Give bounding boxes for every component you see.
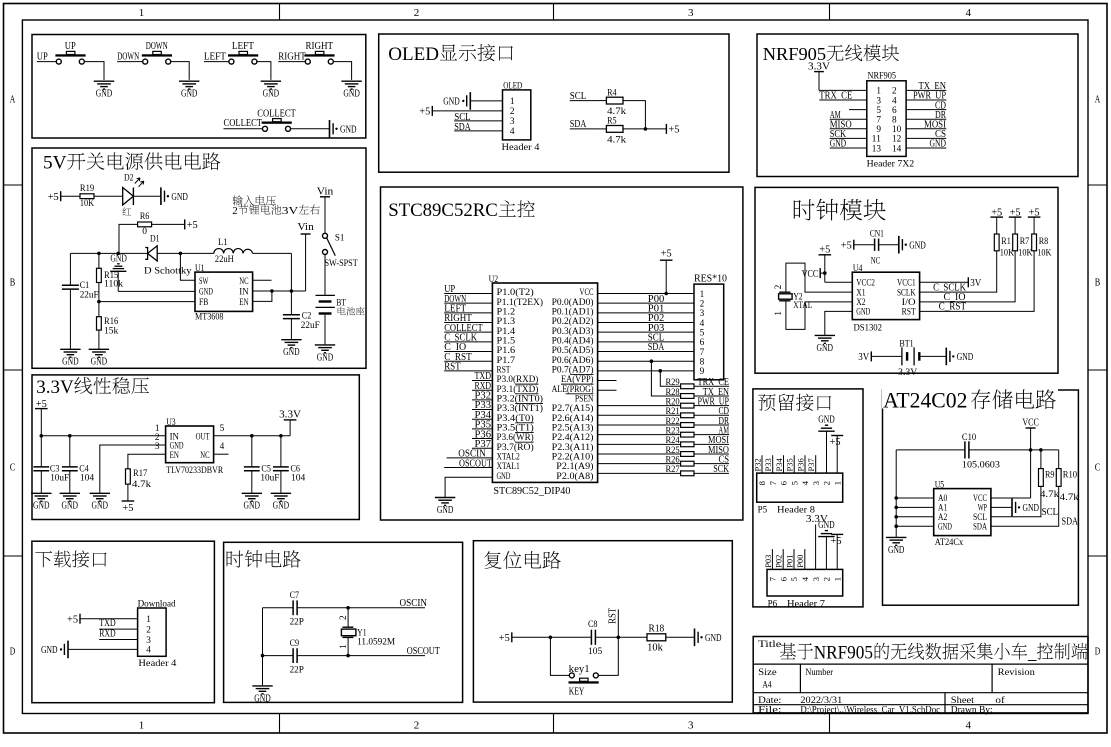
svg-text:P0.4(AD4): P0.4(AD4): [552, 335, 594, 346]
capacitor C5: [244, 436, 280, 493]
svg-text:XTAL: XTAL: [793, 301, 812, 311]
wire U4 GND pin: [825, 311, 853, 335]
svg-text:OSCOUT: OSCOUT: [407, 645, 440, 657]
node P32: [752, 455, 762, 473]
svg-text:P0.7(AD7): P0.7(AD7): [552, 364, 594, 375]
node DOWN: [444, 293, 492, 305]
resistor R27: [665, 465, 694, 476]
svg-text:C2: C2: [302, 312, 312, 322]
block title reset circuit: [484, 551, 561, 569]
svg-text:P1.3: P1.3: [497, 317, 516, 327]
node PWR_UP right: [906, 90, 946, 102]
svg-text:P1.5: P1.5: [497, 336, 516, 346]
ground: [60, 349, 80, 367]
node SCL: [991, 450, 1058, 518]
svg-text:6: 6: [700, 338, 705, 348]
svg-text:3.3V: 3.3V: [279, 408, 301, 420]
svg-text:P6: P6: [768, 599, 778, 609]
svg-text:R6: R6: [140, 212, 150, 222]
svg-text:P5: P5: [758, 506, 768, 516]
svg-text:11: 11: [872, 135, 882, 145]
svg-text:22P: 22P: [290, 665, 304, 675]
ground: [161, 187, 188, 205]
wire GND pin: [896, 526, 934, 537]
svg-text:3: 3: [688, 720, 694, 732]
svg-text:GND: GND: [317, 351, 334, 363]
MCU block box: [381, 187, 743, 520]
svg-text:C10: C10: [962, 433, 976, 443]
capacitor C8: [588, 620, 603, 657]
svg-text:XTAL2: XTAL2: [497, 452, 521, 462]
svg-text:SCLK: SCLK: [897, 288, 916, 298]
svg-text:I/O: I/O: [902, 298, 916, 308]
power port +5: [830, 436, 844, 474]
svg-text:GND: GND: [254, 692, 271, 704]
svg-text:Header 4: Header 4: [502, 143, 540, 153]
node P37: [806, 455, 816, 473]
svg-text:2: 2: [510, 107, 515, 117]
node RXD: [99, 628, 137, 640]
ground port: [1012, 499, 1039, 517]
block title STC89C52RC: [388, 200, 535, 221]
wire P0.0 row: [598, 302, 694, 304]
svg-text:GND: GND: [437, 504, 454, 516]
svg-text:+5: +5: [831, 535, 842, 547]
svg-text:PSEN: PSEN: [575, 394, 594, 404]
capacitor C10: [962, 433, 1000, 471]
node CD: [694, 406, 729, 417]
sheet title text: [780, 642, 1088, 663]
wire A0: [896, 497, 934, 499]
svg-text:12: 12: [892, 135, 902, 145]
svg-text:P1.6: P1.6: [497, 346, 516, 356]
svg-text:Header 4: Header 4: [138, 659, 176, 669]
node C_RST: [444, 351, 492, 363]
ground: [315, 345, 335, 363]
svg-text:7: 7: [700, 348, 705, 358]
svg-text:P01: P01: [784, 555, 794, 568]
svg-text:VCC: VCC: [1022, 417, 1039, 429]
svg-text:AT24Cx: AT24Cx: [935, 538, 964, 548]
node TXD: [472, 370, 492, 382]
capacitor C6: [273, 436, 306, 493]
wire left rail: [894, 450, 898, 528]
svg-text:P1.1(T2EX): P1.1(T2EX): [497, 297, 544, 308]
ground: [271, 493, 291, 511]
svg-text:7: 7: [768, 576, 778, 581]
wire: [152, 223, 185, 225]
power port +5: [990, 207, 1003, 234]
svg-text:CN1: CN1: [870, 230, 884, 240]
svg-text:P37: P37: [806, 458, 816, 472]
node RST: [444, 361, 492, 373]
svg-text:4.7k: 4.7k: [132, 480, 151, 490]
OLED interface block box: [379, 34, 729, 172]
svg-text:1: 1: [832, 481, 842, 485]
resistor R19: [80, 184, 94, 209]
svg-text:2: 2: [232, 205, 238, 217]
node COLLECT: [224, 117, 263, 129]
node PWR_UP: [694, 396, 729, 407]
svg-text:L1: L1: [218, 238, 228, 248]
svg-text:GND: GND: [705, 632, 722, 644]
ground: [818, 414, 835, 473]
svg-text:R9: R9: [1045, 471, 1055, 481]
svg-text:4: 4: [800, 480, 810, 485]
svg-text:NC: NC: [871, 256, 881, 266]
svg-text:3: 3: [811, 576, 821, 581]
svg-text:P3.3(INT1): P3.3(INT1): [497, 403, 544, 414]
svg-text:P2.5(A13): P2.5(A13): [552, 422, 594, 433]
node P32: [472, 390, 492, 402]
svg-text:OSCIN: OSCIN: [400, 597, 428, 609]
ground: [89, 349, 109, 367]
svg-text:7: 7: [768, 480, 778, 485]
ground: [886, 537, 906, 555]
svg-text:DOWN: DOWN: [146, 40, 168, 52]
svg-text:R4: R4: [607, 88, 617, 98]
svg-text:3: 3: [510, 117, 515, 127]
svg-text:GND: GND: [41, 644, 58, 656]
svg-text:SDA: SDA: [1062, 516, 1079, 528]
wire A2: [896, 516, 934, 518]
svg-text:R5: R5: [607, 117, 617, 127]
wire output net: [70, 252, 182, 256]
wire: [133, 195, 161, 197]
wire: [598, 405, 681, 407]
capacitor C7: [263, 591, 304, 628]
node P00: [648, 293, 665, 305]
ground: [281, 340, 301, 358]
ground: [242, 493, 262, 511]
svg-text:+5: +5: [819, 244, 830, 256]
ground port: [946, 348, 973, 366]
svg-text:A: A: [10, 94, 16, 106]
svg-text:P3.2(INT0): P3.2(INT0): [497, 393, 544, 404]
svg-text:P00: P00: [795, 554, 805, 568]
svg-text:S1: S1: [335, 234, 345, 244]
wire key branch left: [550, 637, 569, 675]
resistor R29: [665, 378, 694, 389]
header P5 Header 8: [757, 473, 843, 515]
svg-text:13: 13: [872, 144, 882, 154]
svg-text:Vin: Vin: [297, 221, 314, 233]
svg-text:+5: +5: [419, 106, 430, 118]
svg-text:2: 2: [892, 87, 897, 97]
svg-text:+5: +5: [499, 632, 510, 644]
node P33: [472, 399, 492, 411]
node GND: [830, 138, 867, 150]
power port 3.3V: [279, 408, 301, 436]
3.3V regulator block box: [32, 375, 359, 520]
svg-text:GND: GND: [1023, 502, 1040, 514]
wire P0.5 row: [598, 351, 694, 353]
svg-text:3: 3: [146, 636, 151, 646]
node MOSI: [694, 435, 729, 446]
ground: [695, 629, 722, 647]
svg-text:GND: GND: [181, 88, 198, 100]
svg-text:2: 2: [338, 615, 348, 620]
svg-text:R10: R10: [1063, 471, 1077, 481]
node MISO: [694, 445, 729, 456]
node P33: [763, 455, 773, 473]
resistor R28: [665, 388, 694, 399]
switch S1 SW-SPST: [323, 233, 358, 294]
svg-text:1: 1: [700, 290, 705, 300]
wire OSCOUT: [297, 645, 440, 657]
power port 3.3V: [808, 60, 830, 90]
svg-text:4: 4: [510, 127, 515, 137]
svg-text:P2.1(A9): P2.1(A9): [556, 461, 593, 472]
resistor R9: [1039, 469, 1060, 500]
svg-text:AT24C02: AT24C02: [883, 389, 967, 413]
node TRX_CE: [819, 90, 867, 102]
svg-text:P0.0(AD0): P0.0(AD0): [552, 297, 594, 308]
ground: [818, 519, 835, 569]
svg-text:RST: RST: [608, 607, 619, 623]
node P00: [795, 549, 805, 569]
svg-text:1: 1: [338, 645, 348, 650]
svg-text:P1.2: P1.2: [497, 307, 516, 317]
svg-text:SW-SPST: SW-SPST: [325, 259, 358, 269]
svg-text:2: 2: [822, 577, 832, 581]
svg-text:RST: RST: [902, 308, 916, 318]
RTC U4 DS1302: [852, 264, 919, 334]
push button DOWN: [142, 40, 172, 64]
ground port at U1 GND net: [110, 252, 127, 291]
svg-text:3.3V: 3.3V: [898, 368, 917, 378]
svg-text:X2: X2: [856, 298, 866, 308]
svg-text:VCC: VCC: [802, 268, 819, 280]
node C_SCLK: [920, 251, 997, 294]
svg-text:GND: GND: [96, 88, 113, 100]
svg-text:P3.4(T0): P3.4(T0): [497, 413, 534, 424]
svg-text:2: 2: [414, 7, 420, 19]
node C_IO: [444, 341, 492, 353]
svg-text:D: D: [1095, 646, 1101, 658]
wire OSCIN: [297, 597, 427, 609]
node SCK: [830, 128, 867, 140]
svg-text:P1.7: P1.7: [497, 356, 516, 366]
svg-text:P03: P03: [763, 554, 773, 568]
svg-text:+5: +5: [48, 191, 59, 203]
wire to IN node: [290, 253, 292, 291]
wire: [94, 195, 123, 197]
wire: [598, 414, 681, 416]
wire: [666, 636, 695, 638]
node P01: [648, 303, 665, 315]
node SCL: [648, 332, 665, 344]
svg-text:GND: GND: [62, 356, 79, 368]
svg-text:P36: P36: [795, 458, 805, 472]
AT24C02 storage block box: [883, 390, 1079, 605]
resistor network RES*10: [694, 273, 727, 380]
wire VCC1 3V: [920, 281, 969, 283]
node COLLECT: [444, 322, 492, 334]
header P6 Header 7: [767, 569, 843, 609]
svg-text:VCC: VCC: [580, 288, 594, 298]
svg-text:Header 7X2: Header 7X2: [867, 159, 915, 169]
svg-text:Revision: Revision: [998, 668, 1036, 678]
note input voltage text: [232, 195, 320, 216]
svg-text:Title: Title: [758, 640, 781, 650]
capacitor C1: [62, 253, 99, 348]
wire VCC pin: [991, 450, 1031, 498]
svg-text:P2.3(A11): P2.3(A11): [552, 442, 594, 453]
wire: [651, 361, 680, 396]
svg-text:GND: GND: [283, 346, 300, 358]
svg-text:P2.0(A8): P2.0(A8): [556, 471, 593, 482]
svg-text:UP: UP: [37, 51, 48, 63]
wire U1 FB pin: [97, 300, 195, 304]
node OSCIN: [447, 448, 493, 460]
node AM: [830, 109, 867, 121]
NRF905 wireless block box: [757, 34, 1078, 177]
svg-text:4.7k: 4.7k: [607, 136, 626, 146]
resistor R25: [665, 446, 694, 457]
node RST: [608, 607, 619, 637]
svg-text:4: 4: [800, 576, 810, 581]
wire: [921, 355, 947, 357]
wire input net: [40, 434, 166, 438]
svg-text:4: 4: [965, 720, 971, 732]
svg-text:+5: +5: [668, 124, 679, 136]
resistor R18: [647, 623, 666, 653]
svg-text:3: 3: [876, 96, 881, 106]
crystal Y1: [338, 608, 396, 656]
svg-text:3V: 3V: [282, 205, 299, 217]
svg-text:P34: P34: [774, 458, 784, 472]
svg-text:+5: +5: [67, 614, 78, 626]
svg-text:5: 5: [220, 424, 225, 434]
wire: [333, 62, 351, 80]
wire pin1: [80, 618, 138, 620]
svg-text:P2.4(A12): P2.4(A12): [552, 432, 594, 443]
svg-text:Header 7: Header 7: [787, 599, 825, 609]
node P02: [648, 312, 665, 324]
svg-text:+5: +5: [122, 502, 133, 514]
block title NRF905 wireless module: [763, 44, 899, 64]
svg-text:0: 0: [142, 227, 147, 237]
wire OUT net: [214, 434, 291, 438]
svg-text:3.3V: 3.3V: [808, 60, 830, 72]
svg-text:GND: GND: [199, 288, 213, 298]
wire: [660, 371, 680, 386]
wire: [598, 472, 681, 474]
power port +5 down: [122, 501, 135, 514]
svg-text:4: 4: [892, 96, 897, 106]
power port +5: [35, 398, 48, 436]
svg-text:NC: NC: [239, 277, 248, 287]
ground: [435, 498, 455, 516]
wire top rail: [896, 448, 1058, 452]
svg-text:10uF: 10uF: [50, 474, 69, 484]
resistor R16: [97, 302, 119, 349]
wire key branch right: [598, 637, 618, 675]
svg-text:4: 4: [965, 7, 971, 19]
svg-text:P3.0(RXD): P3.0(RXD): [497, 374, 539, 385]
svg-text:MT3608: MT3608: [195, 313, 224, 323]
svg-text:8: 8: [700, 357, 705, 367]
wire pin5 stub: [849, 109, 867, 111]
power port +5: [499, 632, 512, 644]
wire WP pin: [991, 506, 1012, 508]
capacitor C4: [62, 436, 95, 493]
wire EN pin: [253, 291, 272, 301]
svg-text:3.3V: 3.3V: [36, 377, 74, 398]
power port +5: [1009, 207, 1022, 234]
svg-text:Size: Size: [758, 668, 777, 678]
resistor R8: [1032, 234, 1052, 258]
svg-text:P32: P32: [752, 458, 762, 471]
ground: [261, 81, 281, 99]
svg-text:GND: GND: [110, 252, 127, 264]
svg-text:STC89C52RC: STC89C52RC: [388, 200, 498, 221]
resistor R20: [665, 397, 694, 408]
node DR: [694, 416, 729, 427]
svg-text:2: 2: [822, 481, 832, 485]
svg-text:15k: 15k: [104, 326, 119, 336]
header J Download: [138, 599, 177, 669]
node GND right: [906, 138, 946, 150]
svg-text:A: A: [1095, 94, 1101, 106]
node RXD: [472, 380, 492, 392]
svg-text:+5: +5: [661, 247, 672, 259]
svg-text:GND: GND: [244, 500, 261, 512]
wire left rail: [261, 608, 265, 686]
svg-text:GND: GND: [343, 88, 360, 100]
power port Vin: [297, 221, 314, 291]
svg-text:9: 9: [700, 367, 705, 377]
power port +5: [831, 534, 844, 569]
capacitor C3: [33, 436, 69, 493]
svg-text:FB: FB: [199, 298, 208, 308]
svg-text:2: 2: [773, 285, 783, 290]
svg-text:6: 6: [778, 576, 788, 581]
svg-text:P0.1(AD1): P0.1(AD1): [552, 306, 594, 317]
node TX_EN right: [906, 80, 946, 92]
svg-text:Number: Number: [805, 668, 834, 678]
title block: [753, 637, 1088, 716]
svg-text:P35: P35: [785, 458, 795, 472]
node DR right: [906, 109, 946, 121]
wire GND pin: [445, 477, 492, 497]
svg-text:UP: UP: [65, 40, 76, 52]
wire pin1: [470, 100, 502, 102]
block title download interface: [35, 550, 106, 567]
svg-text:5V: 5V: [43, 153, 67, 174]
eeprom U5 AT24Cx: [934, 481, 991, 549]
ground: [252, 686, 272, 704]
svg-text:GND: GND: [909, 239, 926, 251]
svg-text:3: 3: [811, 480, 821, 485]
svg-text:C1: C1: [80, 281, 90, 291]
svg-text:14: 14: [892, 144, 902, 154]
resistor R22: [665, 417, 694, 428]
node LEFT: [444, 303, 492, 315]
capacitor C9: [263, 639, 304, 676]
power port +5 vcc2: [819, 244, 832, 283]
svg-text:+5: +5: [830, 436, 841, 448]
svg-text:P3.6(WR): P3.6(WR): [497, 432, 534, 443]
svg-text:GND: GND: [818, 519, 835, 531]
power port +5: [666, 124, 679, 136]
inductor L1: [180, 238, 291, 265]
node P35: [472, 419, 492, 431]
svg-text:C8: C8: [588, 620, 598, 630]
svg-text:5: 5: [700, 328, 705, 338]
svg-text:4.7k: 4.7k: [1060, 493, 1079, 503]
